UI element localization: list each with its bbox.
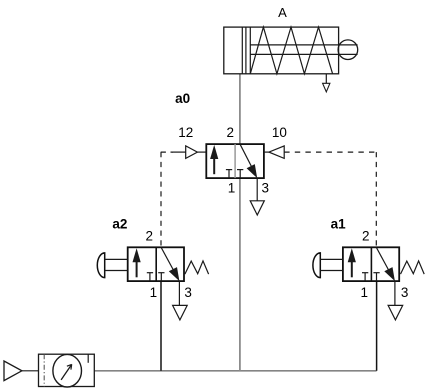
wire: supply manifold (grey horizontal bus) — [94, 370, 376, 372]
service unit U1: body box — [39, 354, 95, 386]
wire: valve a0 port 1 down to manifold (grey) — [239, 178, 241, 371]
valve a1: return spring — [401, 261, 425, 274]
wire: pilot line 12 dashed horizontal segment — [161, 151, 173, 153]
cylinder A: rod end circle — [338, 40, 358, 60]
valve a2: return spring — [185, 261, 209, 274]
valve a1: 3/2 roller limit valve body — [343, 247, 399, 281]
service unit U1: gauge needle arrow — [61, 364, 72, 380]
valve a2: 3/2 roller limit valve body — [128, 247, 184, 281]
valve a2: left cell flow arrow 1 to 2 — [133, 248, 141, 262]
valve a0: cell divider — [234, 144, 236, 178]
valve a0: port 3 exhaust line — [256, 178, 258, 201]
svg-text:3: 3 — [184, 285, 192, 300]
svg-text:10: 10 — [272, 125, 287, 140]
wire: valve a1 port 1 down to manifold — [376, 281, 378, 371]
valve a1: mushroom actuator dome — [313, 253, 320, 278]
valve a2: port 3 exhaust triangle — [173, 305, 188, 320]
valve a1: cell divider — [370, 247, 372, 281]
valve a2: port 3 exhaust line — [178, 281, 180, 305]
service unit U1: regulator gauge circle — [53, 354, 82, 387]
cylinder A: piston double line and spring seat — [242, 27, 250, 74]
wire: valve a2 port 1 down to manifold — [160, 281, 162, 371]
cylinder A: exhaust triangle — [323, 83, 330, 92]
service unit U1: dash-dot assembly line — [43, 354, 45, 386]
valve a1: left cell flow arrow 1 to 2 — [348, 248, 356, 262]
svg-text:2: 2 — [362, 228, 370, 243]
svg-text:a1: a1 — [331, 217, 347, 232]
svg-text:1: 1 — [150, 285, 158, 300]
service unit U1: top-right tick — [87, 354, 89, 363]
svg-text:1: 1 — [360, 285, 368, 300]
valve a0: pilot 10 triangle — [269, 146, 284, 159]
valve a0: pilot 12 triangle — [186, 146, 198, 159]
wire: cylinder A port to valve a0 port 2 (grey) — [239, 74, 241, 144]
valve a0: right cell exhaust path arrow 2 to 3 — [240, 145, 252, 169]
valve a1: right cell exhaust path arrow 2 to 3 — [377, 248, 390, 272]
valve a0: pilot port 12 lead line — [173, 151, 186, 153]
cylinder A: return spring — [250, 27, 332, 74]
svg-text:2: 2 — [227, 125, 235, 140]
svg-text:A: A — [278, 5, 287, 20]
compressed air source triangle — [4, 361, 22, 381]
svg-text:3: 3 — [401, 285, 409, 300]
valve a0: left cell flow arrow 1 to 2 — [210, 145, 218, 159]
valve a2: blocked port T left — [147, 272, 153, 274]
svg-text:3: 3 — [262, 181, 270, 196]
wire: pilot line 12 dashed vertical from corner down to valve a2 port 2 — [160, 152, 162, 247]
valve a1: blocked port T right — [373, 272, 379, 274]
valve a2: mushroom actuator dome — [97, 253, 104, 278]
valve a1: port 3 exhaust line — [394, 281, 396, 305]
valve a2: blocked port T right — [158, 272, 164, 274]
wire: pilot line 10 dashed horizontal to right corner — [284, 151, 376, 153]
valve a2: actuator stem double line — [105, 258, 128, 260]
cylinder A: exhaust vent line — [325, 74, 327, 84]
svg-text:1: 1 — [228, 181, 236, 196]
valve a1: actuator stem double line — [320, 258, 343, 260]
cylinder A: piston rod double line — [250, 45, 357, 55]
svg-text:a0: a0 — [175, 91, 190, 106]
valve a0: blocked port T right — [237, 169, 243, 171]
valve a0: pilot port 10 lead line — [264, 151, 269, 153]
valve a2: right cell exhaust path arrow 2 to 3 — [161, 248, 174, 272]
valve a2: cell divider — [155, 247, 157, 281]
svg-text:2: 2 — [146, 228, 154, 243]
cylinder A: body — [224, 27, 339, 74]
valve a1: port 3 exhaust triangle — [388, 305, 403, 320]
wire: pilot line 10 dashed vertical down to valve a1 port 2 — [375, 152, 377, 247]
wire: source to service unit — [22, 370, 39, 372]
valve a1: blocked port T left — [362, 272, 368, 274]
valve a0: port 3 exhaust triangle — [250, 201, 264, 215]
svg-text:a2: a2 — [112, 217, 127, 232]
svg-text:12: 12 — [178, 125, 193, 140]
valve a0: blocked port T left — [226, 169, 232, 171]
valve a0: 3/2 pneumatic pilot valve body — [206, 144, 264, 178]
